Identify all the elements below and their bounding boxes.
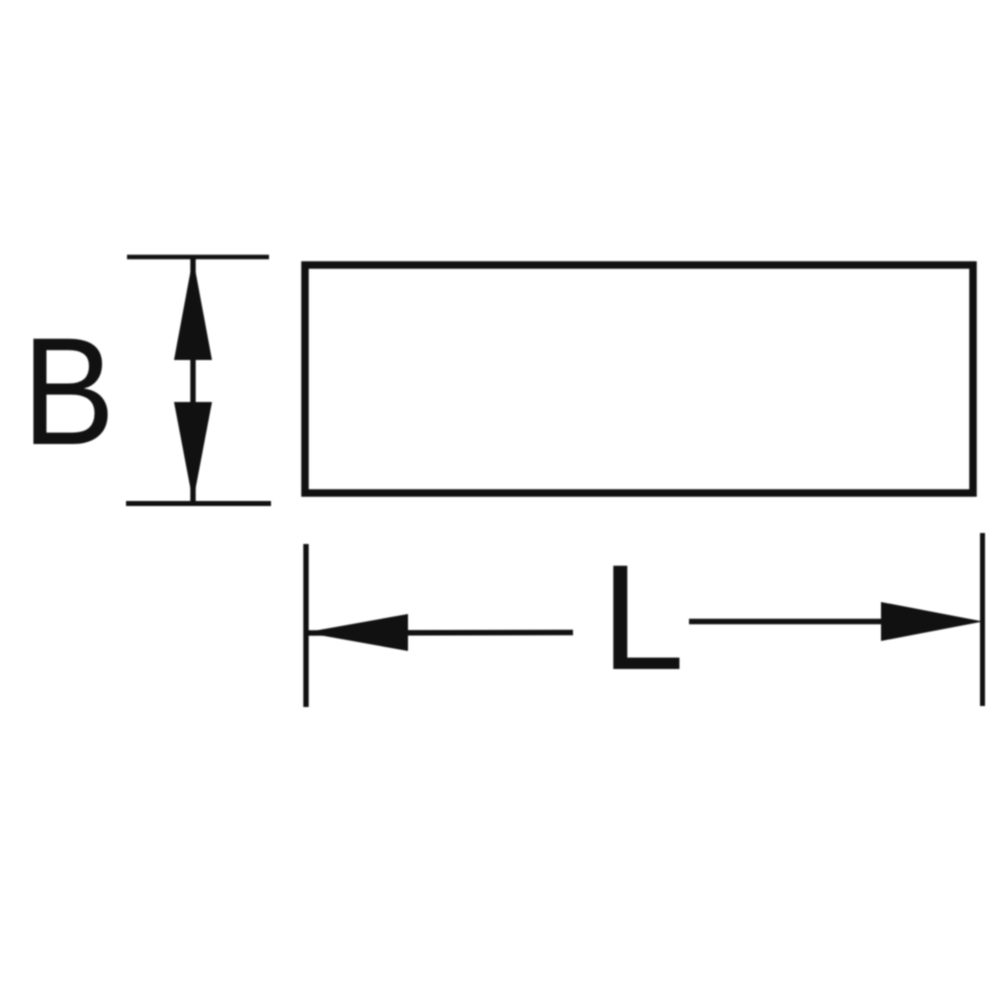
- dimension B top extension line: [127, 255, 269, 260]
- dimension B upper arrowhead: [174, 258, 212, 360]
- dimension B lower arrowhead: [174, 402, 212, 502]
- dimension L left extension line: [303, 544, 308, 707]
- svg-text:L: L: [601, 533, 684, 701]
- dimension B bottom extension line: [126, 501, 271, 506]
- dimension L left arrowhead: [305, 614, 408, 651]
- dimension L right extension line: [980, 533, 985, 706]
- dimension L right dimension line segment: [689, 619, 881, 624]
- dimension B vertical dimension line: [190, 259, 195, 502]
- dimension L right arrowhead: [881, 602, 983, 641]
- dimension L left dimension line segment: [308, 630, 573, 636]
- svg-text:B: B: [22, 306, 115, 477]
- part outline rectangle: [305, 265, 973, 493]
